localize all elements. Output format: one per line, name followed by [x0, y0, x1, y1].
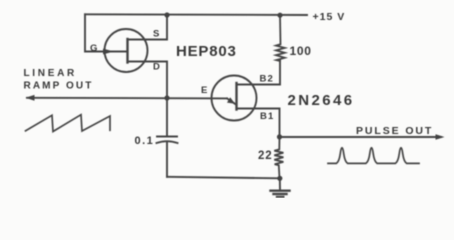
svg-text:22: 22 [258, 150, 272, 162]
svg-text:+15 V: +15 V [313, 11, 346, 23]
svg-text:B1: B1 [260, 111, 275, 122]
svg-text:D: D [153, 61, 160, 72]
svg-text:PULSE OUT: PULSE OUT [356, 125, 433, 137]
svg-text:HEP803: HEP803 [176, 43, 237, 60]
svg-text:2N2646: 2N2646 [288, 92, 355, 109]
svg-text:G: G [90, 43, 97, 54]
svg-text:RAMP OUT: RAMP OUT [24, 81, 94, 92]
svg-text:B2: B2 [260, 73, 275, 84]
svg-text:0.1: 0.1 [135, 135, 155, 147]
svg-text:LINEAR: LINEAR [24, 68, 77, 79]
svg-text:E: E [201, 85, 207, 96]
svg-text:S: S [153, 29, 159, 40]
svg-text:100: 100 [290, 44, 312, 58]
